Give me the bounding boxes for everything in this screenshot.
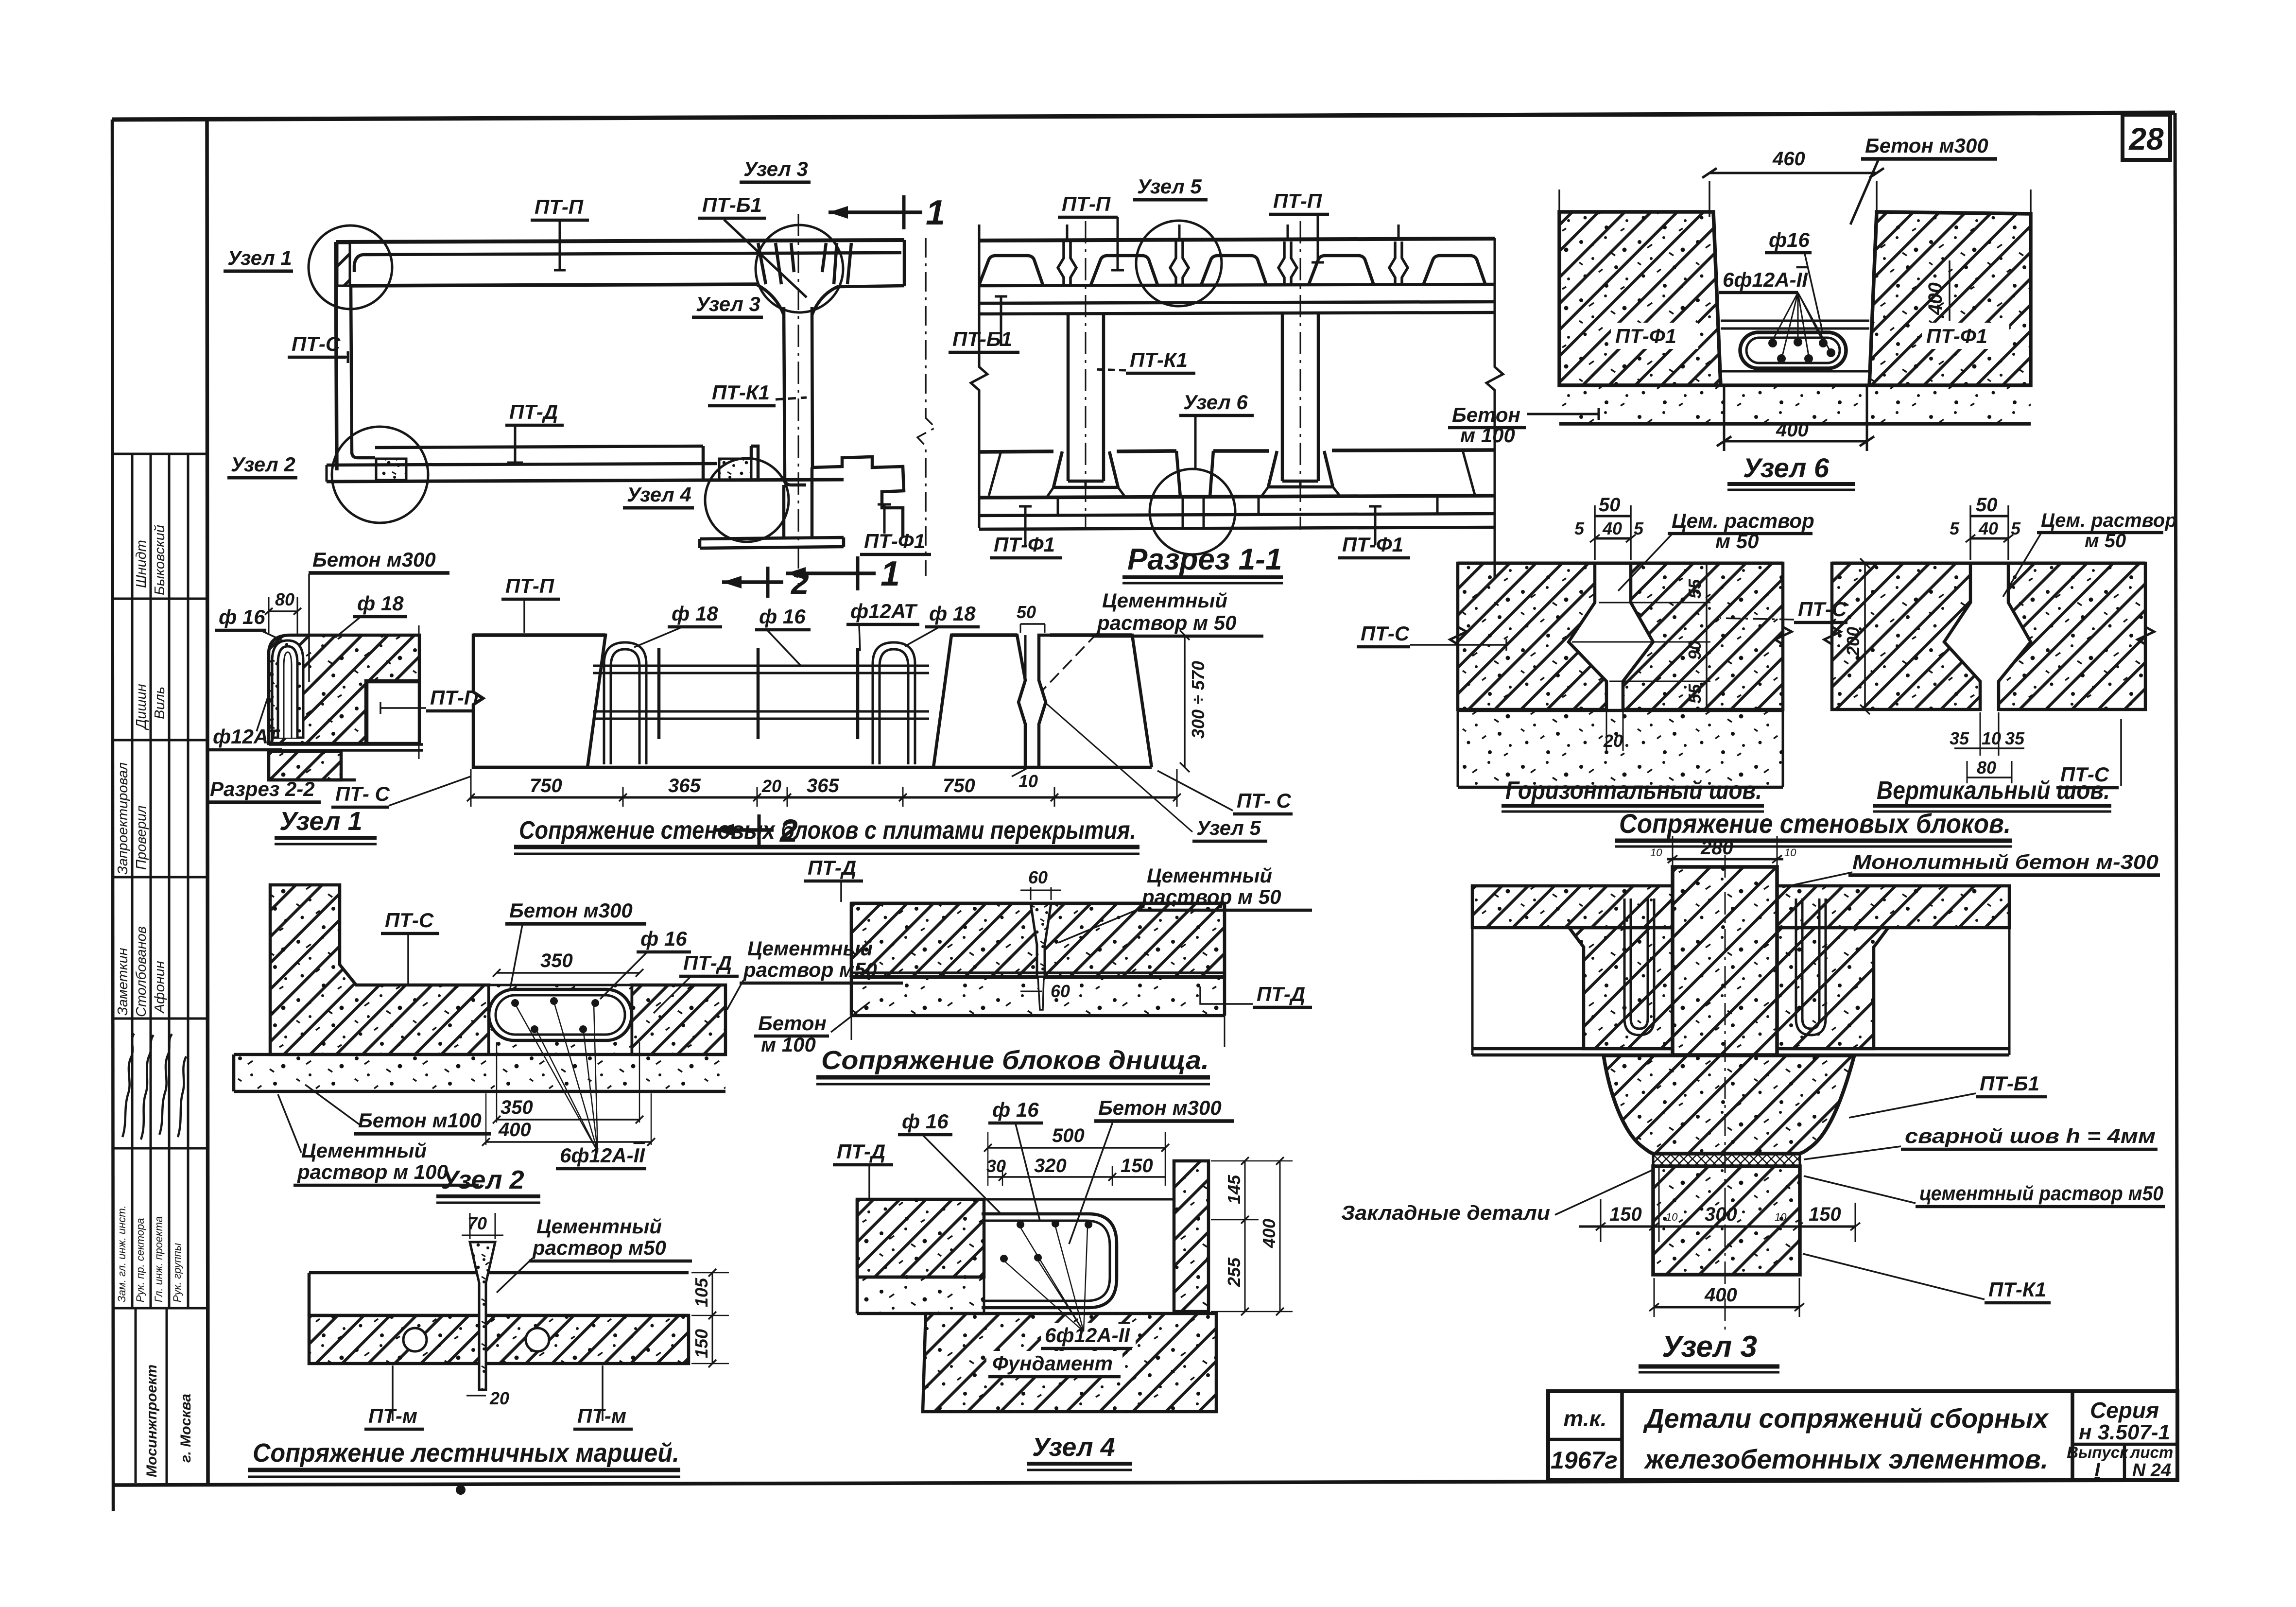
plan: label ПТ-К1 dash leader — [708, 381, 807, 406]
svg-text:20: 20 — [489, 1388, 509, 1408]
conn: section mark 2 top — [722, 565, 809, 601]
hjoint: left wall block — [1458, 563, 1606, 709]
stairs: title — [248, 1438, 680, 1477]
node1: right extension line — [418, 625, 420, 759]
svg-text:10: 10 — [1650, 847, 1662, 859]
svg-text:Шнидт: Шнидт — [134, 540, 149, 588]
svg-text:20: 20 — [1603, 731, 1623, 751]
svg-text:50: 50 — [1976, 494, 1998, 516]
plan: label ПТ-П with leader — [531, 195, 589, 270]
node6: bottom strip cast concrete — [1559, 385, 2031, 424]
section: base joint gap verticals — [1183, 497, 1204, 528]
svg-text:ф 18: ф 18 — [929, 602, 976, 625]
node6: dimension 400 bottom — [1717, 419, 1874, 446]
plan: shear keys in узел 3 circle — [758, 243, 851, 284]
svg-text:Узел 1: Узел 1 — [227, 246, 292, 269]
svg-text:ПТ-П: ПТ-П — [1273, 190, 1322, 212]
svg-text:35: 35 — [2005, 728, 2025, 748]
svg-text:Серия: Серия — [2090, 1398, 2159, 1423]
svg-text:Бетон м300: Бетон м300 — [1865, 134, 1988, 157]
svg-text:Бетон м100: Бетон м100 — [358, 1109, 482, 1132]
svg-text:ПТ-Д: ПТ-Д — [509, 400, 558, 423]
svg-text:Дишин: Дишин — [134, 684, 149, 730]
section: top surface line — [979, 239, 1495, 241]
svg-text:Узел 4: Узел 4 — [1032, 1433, 1115, 1462]
svg-text:Зам. гл. инж. инст.: Зам. гл. инж. инст. — [116, 1205, 128, 1302]
node6: label 6ф12А-II with fan — [1719, 268, 1830, 356]
plan: column in footing verticals — [784, 467, 812, 537]
plan: label Узел 3 mid — [692, 293, 763, 317]
node3: label Монолитный бетон М-300 — [1782, 850, 2160, 887]
node4: label Бетон М300 — [1069, 1096, 1234, 1244]
node4: label ф16 first — [898, 1110, 1002, 1215]
vjoint: dims 35 10 35 below — [1950, 712, 2025, 756]
node1: title Узел 1 — [275, 807, 377, 844]
svg-text:Виль: Виль — [152, 687, 168, 719]
conn: hairpin loop 1 — [604, 642, 646, 764]
vjoint: label ПТ-С bottom right — [2056, 719, 2121, 788]
svg-text:5: 5 — [2011, 518, 2021, 538]
svg-text:Монолитный бетон м-300: Монолитный бетон м-300 — [1852, 850, 2158, 873]
node2: dims 350 400 below — [482, 1042, 655, 1146]
svg-text:Бетон м300: Бетон м300 — [312, 548, 436, 571]
plan: top band bottom line — [351, 284, 757, 286]
svg-text:Выпуск: Выпуск — [2067, 1443, 2129, 1461]
plan: bottom slab soffit line — [327, 464, 717, 465]
section: column B edges — [1282, 314, 1318, 481]
node3: right slab hatched top band — [1777, 886, 2009, 928]
svg-text:365: 365 — [668, 775, 701, 796]
svg-text:1: 1 — [880, 554, 900, 593]
svg-text:Мосинжпроект: Мосинжпроект — [144, 1365, 160, 1477]
plan: right foundation block profile — [812, 457, 904, 537]
vjoint: top line thick — [1832, 562, 2145, 565]
plan: beam right end verticals — [903, 240, 906, 286]
svg-text:400: 400 — [1776, 419, 1809, 441]
conn: baseline full — [473, 766, 1152, 769]
plan: column ПТ-К1 right edge — [812, 307, 812, 467]
conn: rotated dim 300-570 — [1180, 630, 1208, 772]
node6: dimension 460 — [1702, 148, 1884, 178]
section: label ПТ-К1 — [1093, 348, 1195, 373]
svg-text:Узел 1: Узел 1 — [279, 807, 363, 836]
section: foundation top line — [979, 450, 1495, 452]
svg-text:Проверил: Проверил — [134, 805, 149, 870]
svg-text:Сопряжение стеновых блоков.: Сопряжение стеновых блоков. — [1619, 808, 2011, 839]
conn: bottom dimension line — [467, 769, 1181, 807]
stairs: upper band white — [309, 1273, 689, 1315]
conn: left wall block — [473, 635, 605, 767]
svg-text:350: 350 — [501, 1097, 533, 1118]
node1: label ПТ-С with long leader — [331, 777, 470, 807]
svg-text:280: 280 — [1700, 837, 1733, 859]
node6: label Бетон М300 — [1850, 134, 1997, 225]
node1: label ф16 — [215, 605, 284, 641]
svg-text:150: 150 — [1609, 1204, 1642, 1225]
svg-text:300 ÷ 570: 300 ÷ 570 — [1188, 661, 1208, 739]
svg-text:200: 200 — [1843, 627, 1863, 657]
node1: bed joint double lines — [269, 744, 423, 750]
node2: label ф16 — [600, 927, 691, 999]
svg-text:2: 2 — [790, 565, 809, 601]
node4: label ф16 second — [988, 1098, 1043, 1221]
bottomconn: label ПТ-Д right — [1200, 983, 1312, 1007]
svg-text:350: 350 — [540, 950, 573, 971]
svg-text:145: 145 — [1224, 1175, 1244, 1204]
node3: right slab panel outline — [1888, 886, 2009, 1055]
svg-text:50: 50 — [1017, 602, 1036, 622]
node6: loop bottom lines — [1721, 370, 1869, 373]
node1: dim 80 — [265, 589, 301, 634]
node2: foundation strip — [234, 1054, 725, 1091]
svg-text:10: 10 — [1784, 847, 1796, 859]
stairs: label Цементный раствор М50 — [497, 1215, 692, 1293]
plan: base line — [327, 480, 844, 482]
node4: left slab band — [857, 1199, 984, 1277]
node3: lower column ПТ-К1 — [1653, 1166, 1800, 1275]
svg-text:N 24: N 24 — [2132, 1460, 2171, 1481]
vjoint: left edge break — [1824, 563, 1841, 709]
svg-text:320: 320 — [1034, 1155, 1067, 1176]
node4: right wall block — [1174, 1161, 1208, 1312]
svg-text:I: I — [2094, 1459, 2100, 1481]
svg-text:ф 18: ф 18 — [357, 592, 404, 615]
svg-text:ПТ-Б1: ПТ-Б1 — [702, 193, 762, 216]
bottomconn: dim 60 top — [1020, 867, 1061, 900]
node1: label ПТ-П — [380, 686, 484, 714]
plan: column centreline dash-dot — [798, 214, 799, 586]
hjoint: title Горизонтальный шов. — [1502, 777, 1764, 812]
node3: rebar U-loop right strip — [1796, 899, 1826, 1035]
node4: rebar U loop outer — [982, 1214, 1117, 1308]
section: label Узел 5 — [1133, 175, 1208, 200]
svg-text:40: 40 — [1978, 518, 1998, 538]
plan: column ПТ-К1 left edge — [784, 307, 806, 485]
node3: beam head bulb ПТ-Б1 — [1604, 1055, 1854, 1154]
svg-text:50: 50 — [1599, 494, 1621, 516]
svg-text:Цем. раствор: Цем. раствор — [2041, 510, 2177, 531]
plan: label ПТ-Д with leader — [505, 400, 564, 463]
section: plate rib 2 — [1091, 256, 1157, 285]
svg-text:10: 10 — [1019, 771, 1038, 791]
svg-text:лист: лист — [2129, 1443, 2173, 1461]
node2: label Цементный раствор М 100 — [278, 1094, 479, 1185]
hjoint: base strip cast concrete — [1458, 710, 1783, 787]
conn: horizontal rebar bars — [593, 666, 929, 719]
svg-text:Узел 6: Узел 6 — [1183, 391, 1248, 414]
inner frame vertical line — [207, 120, 208, 1485]
svg-text:ПТ-Д: ПТ-Д — [1257, 983, 1305, 1005]
title block — [1548, 1391, 2177, 1481]
svg-text:раствор м 100: раствор м 100 — [297, 1160, 448, 1183]
svg-text:Детали сопряжений сборных: Детали сопряжений сборных — [1643, 1403, 2050, 1434]
plan: beam right portion lines — [839, 286, 904, 287]
svg-text:28: 28 — [2128, 121, 2164, 156]
conn: label ф18 right — [905, 602, 980, 646]
conn: title — [514, 816, 1139, 854]
conn: floor plate 2 — [1039, 635, 1152, 767]
node4: rebar dots — [1000, 1220, 1092, 1262]
svg-text:ПТ-Ф1: ПТ-Ф1 — [864, 530, 925, 553]
svg-text:400: 400 — [1704, 1284, 1737, 1306]
svg-text:Узел 5: Узел 5 — [1196, 816, 1261, 839]
svg-text:10: 10 — [1775, 1211, 1787, 1223]
section: left boundary with break — [971, 225, 987, 528]
svg-text:Узел 2: Узел 2 — [231, 453, 295, 476]
bottomconn: lower cast band — [851, 903, 1225, 1016]
svg-text:90: 90 — [1685, 640, 1705, 660]
stamp rotated names row 4 — [115, 926, 168, 1017]
conn: label ф18 left — [634, 602, 722, 647]
svg-text:460: 460 — [1772, 148, 1805, 170]
plan: left wall inner line — [351, 286, 375, 458]
bottomconn: top hatched band — [851, 903, 1225, 977]
node2: wall and floor mass — [270, 885, 489, 1054]
svg-text:Заметкин: Заметкин — [115, 948, 131, 1016]
vjoint: label Цем. раствор М 50 — [2003, 510, 2177, 597]
svg-text:5: 5 — [1950, 518, 1960, 538]
svg-text:раствор м 50: раствор м 50 — [1141, 885, 1281, 908]
node2: label 6ф12А-II with fan — [515, 1002, 646, 1169]
conn: dim 10 below joint — [1012, 769, 1038, 791]
vjoint: dim 5 40 5 — [1950, 518, 2021, 542]
plan: match line between views — [917, 238, 935, 576]
node6: label ф16 — [1765, 228, 1822, 330]
plan: label ПТ-С with leader — [288, 332, 348, 363]
section: label ПТ-Ф1 right — [1338, 506, 1410, 558]
plan: узел 1 circle — [309, 225, 392, 309]
svg-text:Разрез 1-1: Разрез 1-1 — [1127, 543, 1282, 576]
stairs: wedge joint — [470, 1242, 495, 1390]
node2: rebar stadium inner — [496, 995, 625, 1035]
svg-text:ПТ-Д: ПТ-Д — [683, 951, 732, 974]
svg-text:1: 1 — [926, 193, 945, 232]
section: plate rib 5 — [1423, 256, 1485, 285]
svg-text:60: 60 — [1051, 981, 1070, 1001]
small dot on bottom border — [456, 1485, 466, 1495]
node1: rebar loop outer with mortar — [272, 640, 303, 738]
svg-text:ф 18: ф 18 — [672, 602, 718, 625]
svg-text:6ф12А-II: 6ф12А-II — [560, 1144, 645, 1167]
svg-text:г. Москва: г. Москва — [178, 1394, 194, 1463]
stamp org names row 7 — [144, 1365, 194, 1477]
svg-text:ПТ-К1: ПТ-К1 — [1988, 1278, 2046, 1301]
svg-text:Фундамент: Фундамент — [992, 1352, 1113, 1375]
node4: left cast strip below — [857, 1199, 984, 1313]
conn: label ПТ-П — [501, 574, 560, 633]
svg-text:ПТ-Б1: ПТ-Б1 — [952, 328, 1012, 350]
section: base lines — [979, 514, 1495, 529]
section: slab soffit lines — [979, 284, 1495, 314]
page top border — [112, 113, 2175, 120]
svg-text:80: 80 — [1977, 758, 1996, 778]
node3: column centreline — [1725, 855, 1726, 1334]
conn: label ПТ-С right — [1157, 771, 1293, 814]
plan: left wall outer line — [336, 242, 337, 470]
node4: right dims 145 255 400 — [1211, 1157, 1293, 1315]
node6: title Узел 6 — [1727, 452, 1855, 490]
svg-text:цементный раствор м50: цементный раствор м50 — [1919, 1182, 2163, 1205]
section: label ПТ-П left — [1058, 192, 1124, 270]
svg-text:ф 16: ф 16 — [902, 1110, 949, 1133]
bottomconn: wedge joint white — [1031, 903, 1051, 977]
svg-text:10: 10 — [1982, 728, 2001, 748]
node6: label Бетон М100 — [1448, 403, 1599, 447]
svg-text:Бетон: Бетон — [758, 1012, 827, 1035]
section: socket A walls — [1053, 451, 1118, 487]
section: plate rib 1 — [979, 256, 1043, 285]
svg-text:Горизонтальный шов.: Горизонтальный шов. — [1505, 777, 1762, 805]
node1: label Бетон М300 — [309, 548, 449, 682]
section: slab joint keys — [1058, 242, 1408, 284]
hjoint: dim 20 bottom — [1603, 709, 1623, 751]
section: label ПТ-Б1 — [949, 296, 1019, 352]
svg-text:105: 105 — [691, 1278, 711, 1307]
stairs: right dims 105 150 — [691, 1269, 729, 1367]
vjoint: left wall block — [1832, 563, 1980, 709]
node3: mid dims 150 10 300 10 150 — [1579, 1166, 1860, 1242]
node2: right floor block — [632, 985, 725, 1054]
svg-text:5: 5 — [1634, 518, 1644, 538]
plan: узел 2 circle — [332, 427, 428, 523]
svg-text:ПТ- С: ПТ- С — [335, 782, 390, 805]
svg-text:ф12АТ: ф12АТ — [213, 725, 280, 748]
svg-text:Цементный: Цементный — [1147, 864, 1272, 887]
node3: left monolithic strip — [1569, 928, 1673, 1049]
plan: section mark 1 bottom — [786, 554, 900, 593]
node2: label ПТ-Д — [654, 951, 739, 1013]
svg-text:Рук. группы: Рук. группы — [171, 1243, 183, 1302]
node1: label ф12АТ — [209, 690, 282, 750]
node3: weld band — [1653, 1154, 1800, 1166]
svg-text:Бетон: Бетон — [1452, 403, 1520, 426]
plan: column top flare into beam — [757, 285, 839, 315]
conn: label ф12АТ — [846, 600, 919, 651]
section: column A edges — [1068, 314, 1104, 481]
node2: label ПТ-С — [381, 909, 439, 984]
plan: узел 4 step outline — [703, 446, 758, 480]
bottomconn: band bottom double line — [851, 973, 1225, 978]
svg-text:ПТ-Ф1: ПТ-Ф1 — [1615, 325, 1676, 347]
section: foundation bottom line — [979, 496, 1495, 498]
svg-text:Узел 3: Узел 3 — [696, 293, 760, 315]
hjoint: dim 50 top — [1595, 494, 1631, 560]
node6: rebar loop outer — [1740, 332, 1846, 368]
node4: rebar U loop inner — [982, 1221, 1110, 1301]
svg-text:ПТ-Д: ПТ-Д — [837, 1140, 885, 1163]
stamp rotated roles row 3 — [115, 762, 149, 875]
node4: dims 30 320 150 — [986, 1155, 1165, 1186]
svg-text:Узел 3: Узел 3 — [1662, 1330, 1757, 1364]
svg-text:Сопряжение лестничных маршей: Сопряжение лестничных маршей. — [253, 1438, 679, 1468]
node1: slab ПТ-П white rect — [367, 682, 419, 743]
bottomconn: end extension ticks — [851, 1016, 1225, 1047]
svg-text:ПТ-П: ПТ-П — [505, 574, 554, 597]
bottomconn: label Бетон М100 — [754, 1002, 870, 1056]
svg-text:35: 35 — [1950, 728, 1969, 748]
page right border — [2175, 113, 2177, 1480]
svg-text:ПТ-Ф1: ПТ-Ф1 — [1926, 325, 1987, 347]
svg-text:750: 750 — [530, 775, 562, 796]
svg-text:Вертикальный шов.: Вертикальный шов. — [1877, 777, 2110, 805]
page outer left border — [112, 120, 113, 1511]
stairs: dim 70 — [462, 1213, 503, 1239]
svg-text:400: 400 — [498, 1119, 531, 1140]
node2: label Цементный раствор М50 right — [727, 937, 903, 1010]
svg-text:ПТ-П: ПТ-П — [1062, 192, 1111, 215]
svg-text:5: 5 — [1574, 518, 1585, 538]
node3: left slab hatched top band — [1472, 886, 1673, 928]
node2: label Бетон М300 — [505, 899, 646, 988]
node1: label Разрез 2-2 — [206, 778, 321, 802]
bottomconn: label ПТ-Д left — [804, 856, 863, 902]
node4: foundation mass — [923, 1313, 1216, 1412]
svg-text:Узел 3: Узел 3 — [743, 157, 808, 180]
svg-text:500: 500 — [1052, 1125, 1085, 1146]
svg-text:400: 400 — [1925, 282, 1946, 315]
svg-text:Афонин: Афонин — [152, 961, 168, 1014]
node4: label 6ф12А-II with fan — [1005, 1227, 1136, 1348]
svg-text:Бетон м300: Бетон м300 — [1098, 1096, 1222, 1119]
svg-text:Узел 4: Узел 4 — [627, 483, 691, 506]
section: base ticks — [1058, 481, 1437, 515]
conn: label Цементный раствор М 50 — [1043, 589, 1263, 690]
svg-text:ф 16: ф 16 — [992, 1098, 1039, 1121]
node6: right block ПТ-Ф1 — [1869, 212, 2031, 385]
node6: rebar loop inner — [1746, 338, 1840, 363]
svg-text:55: 55 — [1685, 579, 1705, 599]
section: right boundary with break — [1486, 238, 1503, 578]
svg-text:150: 150 — [1121, 1155, 1153, 1176]
node3: label сварной шов h=4мм — [1804, 1124, 2158, 1159]
conn: label Узел 5 with long leader — [1045, 702, 1267, 841]
stamp rotated signatures row 2 — [134, 684, 168, 730]
svg-text:Разрез 2-2: Разрез 2-2 — [210, 778, 315, 800]
page number box 28 — [2123, 115, 2170, 160]
stairs: dim 20 bottom — [466, 1388, 509, 1408]
conn: label ф16 — [755, 605, 811, 667]
node6: label ПТ-Ф1 in left block — [1611, 323, 1698, 349]
plan: mortar pad at узел 2 — [376, 459, 406, 480]
svg-text:300: 300 — [1705, 1204, 1737, 1225]
node3: title Узел 3 — [1639, 1330, 1779, 1372]
svg-text:255: 255 — [1224, 1257, 1244, 1287]
svg-text:ПТ-Ф1: ПТ-Ф1 — [1342, 533, 1403, 556]
node6: rotated dim 400 right gap — [1925, 260, 1950, 321]
svg-text:н 3.507-1: н 3.507-1 — [2079, 1420, 2170, 1444]
node3: label ПТ-Б1 — [1849, 1072, 2047, 1118]
svg-text:Цем. раствор: Цем. раствор — [1672, 509, 1814, 532]
hjoint: right vertical dims 55 90 55 — [1572, 563, 1710, 709]
svg-text:150: 150 — [1809, 1204, 1841, 1225]
svg-text:Закладные детали: Закладные детали — [1341, 1201, 1550, 1224]
section: узел 5 circle — [1136, 221, 1222, 306]
svg-text:80: 80 — [275, 589, 294, 609]
svg-text:60: 60 — [1028, 867, 1048, 887]
page bottom border — [112, 1480, 2177, 1485]
plan: label ПТ-Ф1 with leader — [860, 504, 931, 554]
vjoint: dim 80 below — [1967, 758, 2012, 783]
hjoint: dim 5 40 5 — [1574, 518, 1644, 542]
section: label ПТ-П right — [1269, 190, 1329, 262]
svg-text:ф 16: ф 16 — [640, 927, 687, 950]
svg-text:6ф12А-II: 6ф12А-II — [1723, 268, 1808, 291]
svg-text:Узел 5: Узел 5 — [1137, 175, 1202, 198]
vjoint: dim 50 top — [1970, 494, 2008, 560]
bottomconn: top line thick — [851, 902, 1225, 905]
svg-text:20: 20 — [761, 776, 781, 796]
svg-text:ПТ-Д: ПТ-Д — [808, 856, 856, 879]
